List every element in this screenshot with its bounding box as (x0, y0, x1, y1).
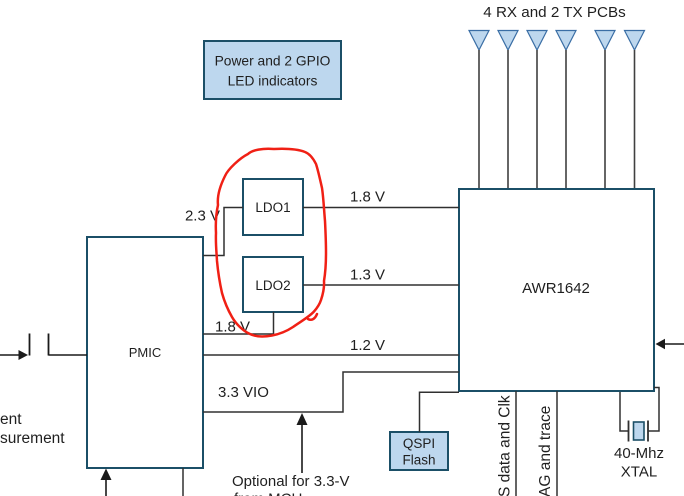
block: QSPI Flash U2 (390, 432, 448, 470)
wire: 1.2 V net PMIC to AWR1642 (203, 354, 459, 356)
antenna ANT5 (TX) (595, 31, 615, 189)
svg-text:QSPI: QSPI (403, 436, 435, 451)
wire: 1.8 V net LDO1 to AWR1642 (303, 207, 459, 209)
crystal Y1: 40-Mhz XTAL (629, 421, 649, 442)
svg-text:40-Mhz: 40-Mhz (614, 445, 664, 462)
wire: XTAL left leg from AWR1642 (620, 392, 628, 431)
svg-text:1.2 V: 1.2 V (350, 337, 385, 354)
annotation: red hand-drawn circle around LDO1 and LDO2 (216, 149, 326, 337)
wire: input supply with current-measurement break, arrow into jumper (0, 334, 87, 361)
svg-text:AG and trace: AG and trace (537, 406, 554, 496)
svg-text:AWR1642: AWR1642 (522, 280, 590, 297)
block: PMIC U3 (87, 237, 203, 468)
regulator LDO1 (243, 179, 303, 235)
block: AWR1642 U1 (459, 189, 654, 391)
svg-text:Power and 2 GPIO: Power and 2 GPIO (215, 54, 331, 69)
wire: 3.3 VIO net PMIC to AWR1642 (203, 372, 459, 412)
wire: 1.3 V net LDO2 to AWR1642 (303, 284, 459, 286)
wire: LVDS data and Clk bus from AWR1642 (515, 391, 517, 496)
regulator LDO2 (243, 257, 303, 312)
svg-text:4 RX and 2 TX PCBs: 4 RX and 2 TX PCBs (483, 4, 626, 21)
svg-text:XTAL: XTAL (621, 464, 657, 481)
svg-text:LED indicators: LED indicators (228, 74, 318, 89)
wire: JTAG and trace bus from AWR1642 (556, 391, 558, 496)
svg-text:ent: ent (0, 411, 22, 428)
wire: LDO2 input pin drop (273, 312, 275, 334)
svg-text:LDO2: LDO2 (255, 278, 290, 293)
antenna ANT4 (RX) (556, 31, 576, 189)
antenna ANT3 (RX) (527, 31, 547, 189)
wire: supply into PMIC bottom with up arrow (101, 469, 112, 496)
svg-text:3.3 VIO: 3.3 VIO (218, 384, 269, 401)
svg-text:PMIC: PMIC (129, 345, 162, 360)
svg-text:S data and Clk: S data and Clk (497, 395, 514, 496)
svg-text:Optional for 3.3-V: Optional for 3.3-V (232, 473, 350, 490)
svg-text:1.8 V: 1.8 V (350, 189, 385, 206)
wire: XTAL right leg from AWR1642 (649, 388, 660, 432)
block: Power and 2 GPIO LED indicators (204, 41, 341, 99)
antenna ANT6 (TX) (625, 31, 645, 189)
svg-text:1.8 V: 1.8 V (215, 319, 250, 336)
svg-text:from MCU: from MCU (234, 491, 302, 496)
svg-text:Flash: Flash (402, 453, 435, 468)
wire: PMIC bottom stub (182, 468, 184, 496)
wire: QSPI Flash to AWR1642 (420, 392, 460, 432)
svg-text:1.3 V: 1.3 V (350, 267, 385, 284)
svg-text:LDO1: LDO1 (255, 200, 290, 215)
svg-text:surement: surement (0, 430, 65, 447)
antenna ANT2 (RX) (498, 31, 518, 189)
wire: 1.8 V rail PMIC to LDO2 (203, 333, 274, 335)
wire/arrow: optional 3.3-V from MCU pointer (297, 413, 308, 473)
wire/arrow: input into AWR1642 right side (656, 339, 684, 349)
antenna ANT1 (RX) (469, 31, 489, 189)
wire: 2.3 V net PMIC to LDO1 (203, 208, 243, 256)
